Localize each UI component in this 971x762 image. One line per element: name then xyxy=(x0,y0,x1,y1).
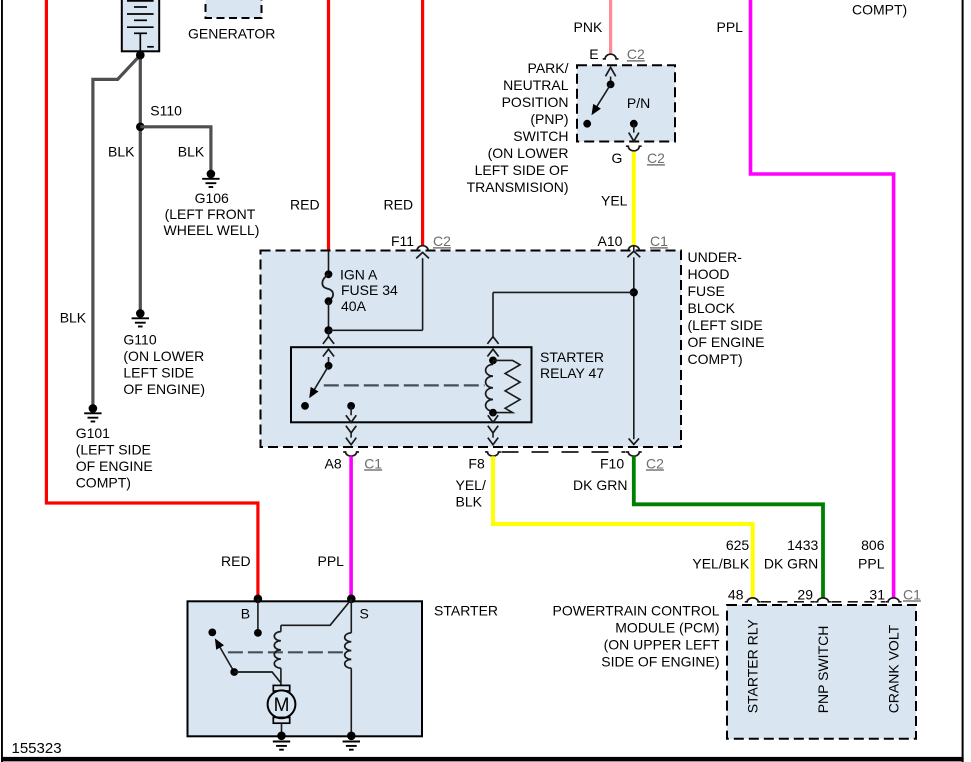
svg-text:CRANK VOLT: CRANK VOLT xyxy=(886,624,902,713)
wire YEL/BLK F8 to PCM 48 xyxy=(493,456,753,598)
connector C1 dashed gang line segment 2 xyxy=(831,601,885,603)
svg-text:29: 29 xyxy=(797,586,813,602)
starter hold-in coil from S xyxy=(350,599,352,633)
svg-text:C2: C2 xyxy=(627,46,645,62)
wire junction down to relay 30 terminal xyxy=(328,330,330,336)
svg-text:IGN A: IGN A xyxy=(340,266,378,282)
node relay coil bottom xyxy=(489,409,497,417)
PNP switch blade xyxy=(594,84,610,110)
svg-text:(LEFT SIDE: (LEFT SIDE xyxy=(688,317,763,333)
svg-text:48: 48 xyxy=(728,586,744,602)
svg-text:TRANSMISION): TRANSMISION) xyxy=(467,179,569,195)
starter box xyxy=(188,601,423,736)
node starter blade pivot xyxy=(230,668,238,676)
node A10/coil junction xyxy=(630,288,638,296)
page border right xyxy=(962,0,964,762)
battery minus mark xyxy=(147,46,154,48)
svg-text:RED: RED xyxy=(290,197,320,213)
PNP switch pole from E xyxy=(606,67,616,76)
wire BLK battery to S110 to G110 xyxy=(139,51,142,313)
wire junction to F11 xyxy=(329,329,423,331)
svg-text:F10: F10 xyxy=(600,455,624,471)
svg-text:C1: C1 xyxy=(903,586,921,602)
svg-text:OF ENGINE): OF ENGINE) xyxy=(123,381,205,397)
connector 31 half circle xyxy=(886,598,902,602)
svg-text:625: 625 xyxy=(726,537,750,553)
wire RED battery feed to starter B xyxy=(46,0,258,599)
arrow at F10 xyxy=(629,438,639,444)
svg-text:DK GRN: DK GRN xyxy=(573,477,627,493)
node battery negative junction xyxy=(136,51,145,60)
connector 48 half circle xyxy=(745,598,761,602)
motor M xyxy=(268,690,296,718)
svg-text:1433: 1433 xyxy=(787,537,818,553)
wire S to pull-in coil xyxy=(281,600,351,626)
wire PPL A8 to starter S xyxy=(349,456,353,599)
svg-text:UNDER-: UNDER- xyxy=(688,249,743,265)
svg-text:806: 806 xyxy=(861,537,885,553)
starter pull-in coil xyxy=(280,625,282,631)
svg-text:C1: C1 xyxy=(650,233,668,249)
svg-text:155323: 155323 xyxy=(12,740,62,757)
svg-text:S110: S110 xyxy=(150,103,182,119)
svg-text:YEL/: YEL/ xyxy=(456,477,486,493)
connector C1 dashed gang line xyxy=(761,601,815,603)
svg-text:E: E xyxy=(589,46,598,62)
relay coil parallel resistor xyxy=(493,360,520,412)
node relay common xyxy=(325,362,333,370)
wire A10 feed down to F10 xyxy=(633,246,635,252)
svg-text:BLK: BLK xyxy=(60,310,87,326)
starter relay 47 box xyxy=(291,347,532,422)
wire junction to coil branch xyxy=(493,291,634,293)
PNP P/N output arrow xyxy=(633,124,635,133)
page border left xyxy=(1,0,3,762)
wire motor to ground xyxy=(281,723,283,736)
svg-text:BLK: BLK xyxy=(108,144,135,160)
svg-text:OF ENGINE: OF ENGINE xyxy=(688,334,765,350)
svg-text:GENERATOR: GENERATOR xyxy=(188,26,275,42)
node B contact xyxy=(254,629,262,637)
node PNP throw contact xyxy=(583,120,591,128)
svg-text:SWITCH: SWITCH xyxy=(513,128,568,144)
svg-text:POSITION: POSITION xyxy=(502,94,569,110)
connector A10 half circle xyxy=(626,246,642,251)
svg-text:WHEEL WELL): WHEEL WELL) xyxy=(164,222,260,238)
ground G110 xyxy=(136,309,145,318)
connector G half circle xyxy=(626,146,642,151)
node hold-in coil ground xyxy=(347,732,356,741)
svg-text:P/N: P/N xyxy=(627,95,650,111)
motor M bottom brush xyxy=(273,717,289,723)
node PNP pole xyxy=(607,81,615,89)
starter switch blade xyxy=(218,644,234,673)
svg-text:PPL: PPL xyxy=(717,19,744,35)
PCM box xyxy=(727,605,916,739)
connector F11 half circle xyxy=(415,246,431,251)
svg-text:FUSE: FUSE xyxy=(688,283,725,299)
motor M top brush xyxy=(273,685,289,691)
svg-text:PNK: PNK xyxy=(574,19,603,35)
svg-text:F11: F11 xyxy=(391,233,414,249)
connector F8 half circle xyxy=(485,452,501,456)
svg-text:(LEFT FRONT: (LEFT FRONT xyxy=(165,206,256,222)
svg-text:MODULE (PCM): MODULE (PCM) xyxy=(615,619,719,635)
svg-text:COMPT): COMPT) xyxy=(688,351,743,367)
svg-text:(ON UPPER LEFT: (ON UPPER LEFT xyxy=(604,636,720,652)
svg-text:B: B xyxy=(241,605,250,621)
svg-text:BLOCK: BLOCK xyxy=(688,300,736,316)
svg-text:RED: RED xyxy=(384,197,414,213)
svg-text:OF ENGINE: OF ENGINE xyxy=(76,458,153,474)
wire BLK S110 to G106 xyxy=(140,127,211,174)
connector 29 half circle xyxy=(815,598,831,602)
svg-text:YEL/BLK: YEL/BLK xyxy=(692,556,749,572)
svg-text:FUSE 34: FUSE 34 xyxy=(341,282,398,298)
svg-text:(ON LOWER: (ON LOWER xyxy=(488,145,569,161)
wire into fuse 34 xyxy=(328,251,330,274)
wire RED to fuse IGN A xyxy=(327,0,330,251)
svg-text:POWERTRAIN CONTROL: POWERTRAIN CONTROL xyxy=(553,602,720,618)
svg-text:PPL: PPL xyxy=(318,553,345,569)
svg-text:HOOD: HOOD xyxy=(688,266,730,282)
node starter S terminal xyxy=(347,595,356,604)
node starter switch throw xyxy=(208,629,216,637)
svg-text:NEUTRAL: NEUTRAL xyxy=(503,77,569,93)
svg-text:BLK: BLK xyxy=(456,493,483,509)
battery (top left, cropped) xyxy=(122,0,159,51)
svg-text:(LEFT SIDE: (LEFT SIDE xyxy=(76,441,151,457)
svg-text:DK GRN: DK GRN xyxy=(764,556,818,572)
wire PPL right side to PCM 31 xyxy=(751,0,894,598)
svg-text:G: G xyxy=(612,150,623,166)
svg-text:SIDE OF ENGINE): SIDE OF ENGINE) xyxy=(601,653,719,669)
svg-text:A8: A8 xyxy=(325,455,342,471)
node relay output contact xyxy=(347,402,355,410)
node relay coil top xyxy=(489,357,497,365)
connector F10 half circle xyxy=(626,452,642,456)
node P/N contact xyxy=(630,120,638,128)
node fuse output junction xyxy=(324,326,332,334)
generator (dashed box, cropped) xyxy=(206,0,262,18)
svg-text:LEFT SIDE OF: LEFT SIDE OF xyxy=(475,162,569,178)
PNP switch box xyxy=(577,65,675,141)
svg-text:M: M xyxy=(274,695,290,716)
svg-text:G101: G101 xyxy=(76,425,110,441)
connector E half circle xyxy=(603,54,619,59)
node fuse 34 bottom xyxy=(325,297,333,305)
page border bottom xyxy=(1,757,964,762)
ground G106 xyxy=(207,170,216,179)
node S110 splice xyxy=(136,123,145,132)
battery plates xyxy=(127,0,154,2)
node motor ground xyxy=(277,732,286,741)
node fuse 34 top xyxy=(325,270,333,278)
svg-text:C2: C2 xyxy=(646,455,664,471)
wire B to contact xyxy=(257,599,259,633)
wire A10 junction into relay coil xyxy=(492,292,494,336)
svg-text:40A: 40A xyxy=(341,298,367,314)
starter blade link to motor lead xyxy=(234,672,281,683)
connector C2 dashed gang line xyxy=(502,451,626,453)
svg-text:COMPT): COMPT) xyxy=(76,474,131,490)
relay coil winding xyxy=(492,360,494,364)
wire PNK to PNP switch E xyxy=(609,0,612,55)
svg-text:(PNP): (PNP) xyxy=(530,111,568,127)
fuse IGN A FUSE 34 40A element xyxy=(322,274,333,301)
svg-text:S: S xyxy=(360,605,369,621)
svg-text:31: 31 xyxy=(869,586,885,602)
svg-text:STARTER RLY: STARTER RLY xyxy=(745,619,761,714)
wire relay coil to F8 xyxy=(492,413,494,416)
wire fuse to junction xyxy=(328,301,330,330)
svg-text:C2: C2 xyxy=(647,150,665,166)
ground at motor xyxy=(273,741,290,743)
starter mechanical dashed link xyxy=(228,651,347,653)
svg-text:PARK/: PARK/ xyxy=(528,60,569,76)
ground G101 xyxy=(89,404,98,413)
svg-text:F8: F8 xyxy=(468,455,485,471)
relay switch blade xyxy=(311,366,328,395)
svg-text:RELAY 47: RELAY 47 xyxy=(540,365,604,381)
node relay throw open xyxy=(301,402,309,410)
wire BLK battery diagonal to G101 xyxy=(93,55,140,408)
svg-text:G110: G110 xyxy=(123,331,156,347)
ground at hold-in coil xyxy=(343,741,360,743)
svg-text:STARTER: STARTER xyxy=(540,349,604,365)
wire RED to F11 xyxy=(421,0,424,246)
svg-text:C2: C2 xyxy=(433,233,451,249)
svg-text:BLK: BLK xyxy=(178,144,205,160)
svg-text:G106: G106 xyxy=(195,190,229,206)
svg-text:C1: C1 xyxy=(364,455,382,471)
svg-text:COMPT): COMPT) xyxy=(852,2,907,18)
wire DK GRN F10 to PCM 29 xyxy=(634,456,823,598)
node starter B terminal xyxy=(254,595,263,604)
svg-text:STARTER: STARTER xyxy=(434,603,498,619)
svg-text:RED: RED xyxy=(221,553,251,569)
connector A8 half circle xyxy=(343,452,359,456)
svg-text:PPL: PPL xyxy=(858,556,885,572)
under-hood fuse block box xyxy=(261,251,682,448)
svg-text:LEFT SIDE: LEFT SIDE xyxy=(123,364,194,380)
wire YEL from G to A10 xyxy=(632,152,636,246)
svg-text:(ON LOWER: (ON LOWER xyxy=(123,348,204,364)
svg-text:YEL: YEL xyxy=(601,193,628,209)
svg-text:PNP SWITCH: PNP SWITCH xyxy=(815,626,831,714)
relay mechanical dashed link xyxy=(324,384,485,386)
arrow at F11 xyxy=(416,252,429,258)
svg-text:A10: A10 xyxy=(598,233,623,249)
wire relay output to A8 xyxy=(350,406,352,415)
